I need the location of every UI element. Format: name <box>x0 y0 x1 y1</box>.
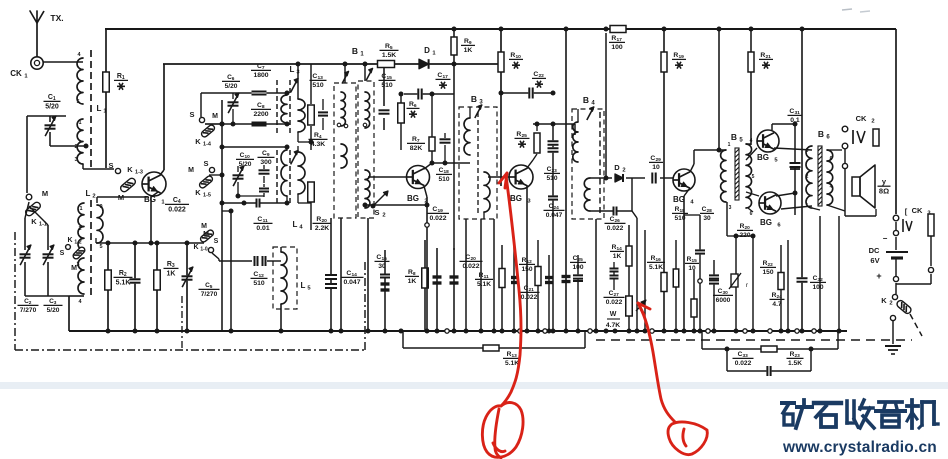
svg-text:1-5: 1-5 <box>203 193 211 199</box>
svg-text:BG: BG <box>760 218 772 227</box>
svg-text:K: K <box>195 137 201 146</box>
svg-text:0: 0 <box>99 204 102 210</box>
svg-text:CK: CK <box>912 206 923 215</box>
svg-text:510: 510 <box>546 175 557 182</box>
svg-text:0.022: 0.022 <box>521 294 538 301</box>
svg-text:CK: CK <box>856 114 867 123</box>
svg-text:4: 4 <box>750 138 753 144</box>
svg-text:1.5K: 1.5K <box>382 52 396 59</box>
svg-text:K: K <box>881 296 887 305</box>
svg-text:1: 1 <box>78 120 81 126</box>
svg-text:S: S <box>214 238 219 245</box>
svg-text:B: B <box>731 132 737 142</box>
svg-text:2: 2 <box>92 194 95 200</box>
svg-text:510: 510 <box>253 280 265 287</box>
svg-text:5.1K: 5.1K <box>649 264 663 271</box>
svg-text:M: M <box>203 231 209 238</box>
svg-text:BG: BG <box>407 194 419 203</box>
svg-text:150: 150 <box>762 269 773 276</box>
svg-text:6: 6 <box>830 156 833 162</box>
svg-text:5/20: 5/20 <box>45 103 59 110</box>
svg-text:510: 510 <box>381 82 393 89</box>
svg-text:6V: 6V <box>870 256 879 265</box>
svg-text:1-4: 1-4 <box>203 142 212 148</box>
svg-text:K: K <box>195 188 201 197</box>
svg-text:510: 510 <box>312 82 324 89</box>
svg-text:1K: 1K <box>464 47 473 54</box>
svg-text:3: 3 <box>74 157 77 163</box>
svg-text:1K: 1K <box>613 253 622 260</box>
svg-text:6000: 6000 <box>716 297 731 304</box>
svg-text:3: 3 <box>76 262 79 268</box>
svg-text:B: B <box>352 46 358 56</box>
svg-text:8Ω: 8Ω <box>879 187 889 196</box>
svg-text:B: B <box>583 95 589 105</box>
svg-text:2: 2 <box>78 226 81 232</box>
svg-text:K: K <box>127 165 133 174</box>
svg-text:0.022: 0.022 <box>462 263 479 270</box>
svg-text:10: 10 <box>652 164 660 171</box>
svg-text:W: W <box>610 311 617 318</box>
svg-text:150: 150 <box>521 266 532 273</box>
svg-text:K: K <box>193 244 198 251</box>
svg-text:M: M <box>71 265 77 272</box>
svg-text:D: D <box>424 46 430 55</box>
svg-text:5: 5 <box>99 244 102 250</box>
svg-text:L: L <box>293 220 298 229</box>
svg-text:K: K <box>31 217 37 226</box>
svg-text:5/20: 5/20 <box>225 83 238 90</box>
svg-text:www.crystalradio.cn: www.crystalradio.cn <box>782 439 937 456</box>
svg-text:1: 1 <box>728 142 731 148</box>
svg-text:4.7K: 4.7K <box>606 322 620 329</box>
svg-text:L: L <box>97 104 102 113</box>
svg-text:0.022: 0.022 <box>607 225 624 232</box>
svg-text:2: 2 <box>382 213 385 219</box>
svg-text:BG: BG <box>757 153 769 162</box>
svg-text:1-2: 1-2 <box>74 240 81 246</box>
svg-text:3: 3 <box>806 148 809 154</box>
svg-text:S: S <box>189 110 194 119</box>
svg-text:5: 5 <box>752 174 755 180</box>
svg-text:1K: 1K <box>408 278 417 285</box>
svg-text:5.1K: 5.1K <box>116 279 131 286</box>
svg-text:B: B <box>471 94 477 104</box>
svg-text:0.022: 0.022 <box>606 299 623 306</box>
svg-text:1K: 1K <box>167 270 176 277</box>
svg-text:−: − <box>883 234 888 243</box>
svg-text:1: 1 <box>806 203 809 209</box>
svg-text:10: 10 <box>688 265 696 272</box>
svg-text:M: M <box>212 113 218 120</box>
svg-text:30: 30 <box>703 215 711 222</box>
svg-text:B: B <box>818 129 824 139</box>
svg-text:1-3: 1-3 <box>135 170 143 176</box>
svg-text:100: 100 <box>812 284 823 291</box>
svg-text:510: 510 <box>674 215 685 222</box>
svg-text:300: 300 <box>260 159 272 166</box>
svg-text:M: M <box>188 167 194 174</box>
svg-text:CK: CK <box>10 69 22 78</box>
svg-text:+: + <box>876 271 881 281</box>
svg-text:7/270: 7/270 <box>201 291 218 298</box>
svg-text:2: 2 <box>622 168 625 174</box>
svg-text:4: 4 <box>830 184 833 190</box>
svg-text:L: L <box>86 189 91 198</box>
svg-text:510: 510 <box>438 176 449 183</box>
svg-text:0.022: 0.022 <box>429 215 446 222</box>
svg-text:0.022: 0.022 <box>735 360 752 367</box>
svg-text:S: S <box>60 250 65 257</box>
svg-text:5.1K: 5.1K <box>505 360 519 367</box>
svg-text:TX.: TX. <box>50 13 63 23</box>
svg-text:0.01: 0.01 <box>256 225 269 232</box>
svg-text:100: 100 <box>572 264 583 271</box>
svg-text:2: 2 <box>74 144 77 150</box>
svg-text:0.047: 0.047 <box>546 212 563 219</box>
svg-text:L: L <box>301 281 306 290</box>
svg-text:1: 1 <box>79 206 82 212</box>
svg-text:2: 2 <box>889 301 892 307</box>
svg-text:BG: BG <box>673 195 685 204</box>
svg-text:K: K <box>67 237 72 244</box>
svg-text:BG: BG <box>510 194 522 203</box>
svg-text:S: S <box>203 159 208 168</box>
svg-text:100: 100 <box>611 44 623 51</box>
svg-text:5.1K: 5.1K <box>477 281 491 288</box>
svg-text:M: M <box>42 189 48 198</box>
svg-text:1-0: 1-0 <box>200 247 207 253</box>
svg-text:4.7: 4.7 <box>772 301 781 308</box>
svg-text:2.2K: 2.2K <box>315 225 329 232</box>
svg-text:M: M <box>201 223 207 230</box>
svg-text:3: 3 <box>729 205 732 211</box>
svg-text:2: 2 <box>806 174 809 180</box>
svg-text:DC: DC <box>869 246 880 255</box>
svg-text:1800: 1800 <box>253 72 268 79</box>
svg-text:2: 2 <box>871 119 874 125</box>
svg-text:82K: 82K <box>410 145 423 152</box>
svg-text:S: S <box>374 208 379 217</box>
svg-text:4.3K: 4.3K <box>311 141 325 148</box>
svg-text:1.5K: 1.5K <box>788 360 802 367</box>
svg-text:0.047: 0.047 <box>343 279 360 286</box>
svg-text:5/20: 5/20 <box>47 307 60 314</box>
svg-text:L: L <box>290 65 295 74</box>
svg-text:30: 30 <box>378 263 386 270</box>
svg-text:5: 5 <box>76 99 79 105</box>
svg-text:7/270: 7/270 <box>20 307 37 314</box>
svg-text:D: D <box>614 163 620 172</box>
svg-text:0.022: 0.022 <box>168 206 186 213</box>
svg-text:2200: 2200 <box>253 111 268 118</box>
